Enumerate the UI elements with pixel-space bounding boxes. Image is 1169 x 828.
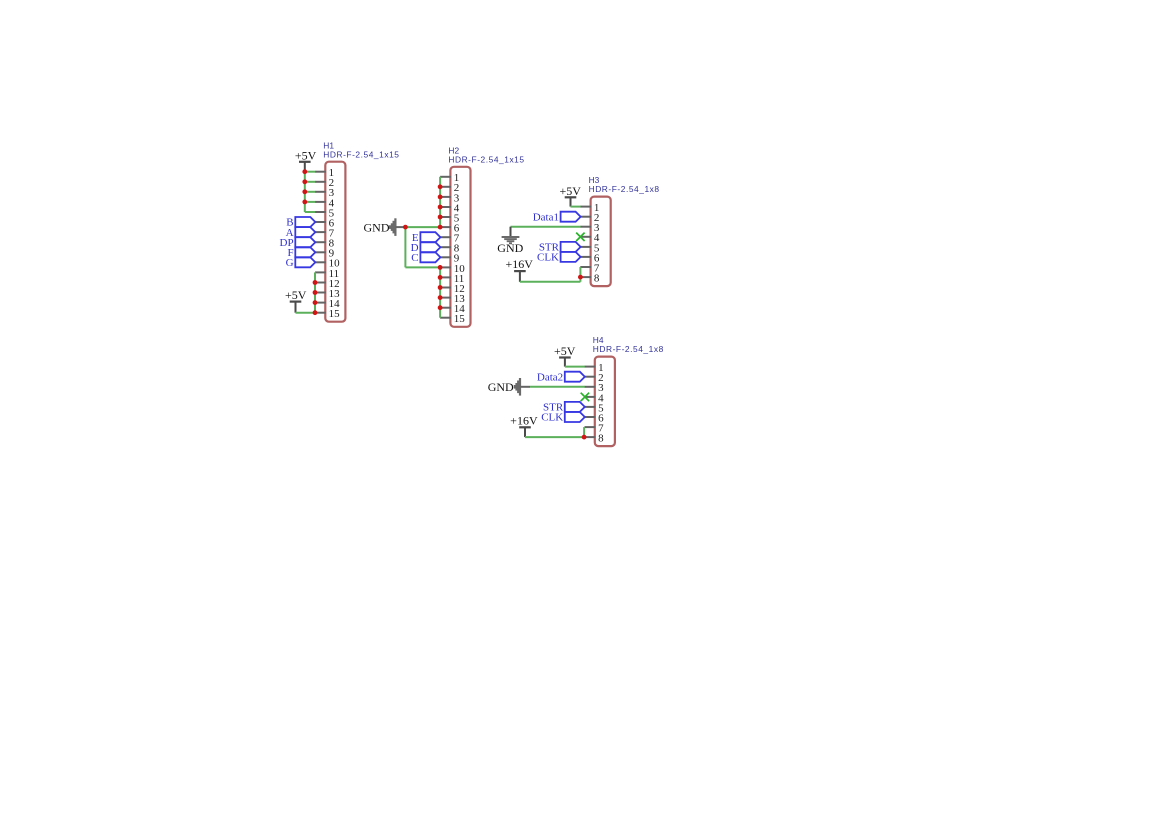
svg-text:C: C — [411, 252, 418, 264]
power symbol +5V — [299, 161, 311, 163]
power symbol +5V — [565, 196, 577, 198]
net label flag B — [295, 217, 315, 227]
H1 pin 15 stub — [315, 312, 326, 314]
net label flag F — [295, 247, 315, 257]
power +16V pin stub — [519, 271, 521, 282]
junction — [438, 184, 443, 189]
power symbol +16V — [514, 270, 526, 272]
H3 pin 7 stub — [580, 266, 591, 268]
net label flag STR — [561, 242, 581, 252]
H1 pin 6 stub — [315, 221, 326, 223]
ground GND pin stub — [395, 226, 405, 228]
power +5V pin stub — [304, 162, 306, 172]
H1 pin 10 stub — [315, 261, 326, 263]
wire +5V vertical bus to H1 pins 1-5 — [304, 172, 306, 212]
H2 pin 10 stub — [440, 266, 451, 268]
power symbol +5V — [290, 301, 302, 303]
wire GND to H2 pin 6 — [405, 226, 440, 228]
ground symbol GND (earth, rotated) — [519, 378, 521, 396]
H3 pin 8 stub — [580, 276, 591, 278]
wire to H1 pin 2 — [305, 181, 316, 183]
net label flag D — [420, 242, 440, 252]
H4 pin 4 stub — [585, 396, 596, 398]
junction — [302, 179, 307, 184]
wire to H1 pin 1 — [305, 171, 316, 173]
junction — [438, 305, 443, 310]
svg-text:CLK: CLK — [537, 252, 559, 264]
H1 pin 13 stub — [315, 292, 326, 294]
H3 pin 3 stub — [580, 226, 591, 228]
junction — [313, 300, 318, 305]
header H2 body — [450, 167, 470, 327]
svg-text:HDR-F-2.54_1x8: HDR-F-2.54_1x8 — [589, 184, 660, 194]
svg-text:15: 15 — [329, 308, 341, 320]
ground symbol GND (earth) — [502, 236, 520, 238]
net label flag CLK — [565, 412, 585, 422]
H4 pin 1 stub — [585, 366, 596, 368]
H4 pin 3 stub — [585, 386, 596, 388]
net label flag E — [420, 232, 440, 242]
H2 pin 7 stub — [440, 236, 451, 238]
H1 pin 14 stub — [315, 302, 326, 304]
svg-text:GND: GND — [497, 241, 523, 255]
junction — [438, 285, 443, 290]
header H1 body — [325, 162, 345, 322]
wire GND vertical bus to H2 pins 10-15 — [439, 267, 441, 317]
svg-text:Data2: Data2 — [537, 371, 563, 383]
junction — [313, 310, 318, 315]
H4 pin 2 stub — [585, 376, 596, 378]
power +5V pin stub — [570, 197, 572, 206]
H1 pin 4 stub — [315, 201, 326, 203]
H2 pin 5 stub — [440, 216, 451, 218]
wire to H1 pin 5 — [305, 211, 316, 213]
wire to H1 pin 13 — [314, 292, 316, 294]
H1 pin 2 stub — [315, 181, 326, 183]
junction — [438, 265, 443, 270]
svg-text:+5V: +5V — [554, 344, 576, 358]
header H4 body — [595, 357, 615, 447]
junction — [578, 275, 583, 280]
wire GND branch down — [404, 227, 406, 267]
wire to H1 pin 14 — [314, 302, 316, 304]
H1 pin 5 stub — [315, 211, 326, 213]
power symbol +16V — [519, 426, 531, 428]
junction — [582, 435, 587, 440]
svg-text:+5V: +5V — [295, 148, 317, 162]
net label flag A — [295, 227, 315, 237]
wire +5V vertical bus to H1 pins 11-15 — [314, 272, 316, 312]
net label flag G — [295, 257, 315, 267]
junction — [313, 290, 318, 295]
wire GND branch to H2 pin 10 — [405, 266, 440, 268]
H3 pin 6 stub — [580, 256, 591, 258]
wire +5V to H4 pin 1 — [565, 366, 585, 368]
H1 pin 8 stub — [315, 241, 326, 243]
H1 pin 1 stub — [315, 171, 326, 173]
svg-text:+16V: +16V — [505, 257, 533, 271]
power +5V pin stub — [564, 358, 566, 367]
svg-text:+16V: +16V — [510, 414, 538, 428]
power symbol +5V — [559, 356, 571, 358]
net label flag Data2 — [565, 372, 585, 382]
junction — [438, 295, 443, 300]
wire +16V vertical to H4 pins 7-8 — [583, 427, 585, 437]
svg-text:+5V: +5V — [285, 288, 307, 302]
power +16V pin stub — [524, 427, 526, 437]
wire +16V horizontal — [520, 281, 581, 283]
H4 pin 6 stub — [585, 416, 596, 418]
junction — [438, 225, 443, 230]
net label flag CLK — [561, 252, 581, 262]
ground GND pin stub — [510, 227, 512, 237]
svg-text:GND: GND — [488, 380, 514, 394]
H1 pin 12 stub — [315, 282, 326, 284]
net label flag C — [420, 252, 440, 262]
svg-text:HDR-F-2.54_1x8: HDR-F-2.54_1x8 — [593, 344, 664, 354]
wire GND to H3 pin 3 — [511, 226, 581, 228]
power +5V pin stub — [295, 302, 297, 313]
no-ERC cross — [581, 393, 589, 401]
H2 pin 13 stub — [440, 297, 451, 299]
svg-text:+5V: +5V — [559, 184, 581, 198]
junction — [403, 225, 408, 230]
H3 pin 5 stub — [580, 246, 591, 248]
svg-text:Data1: Data1 — [533, 211, 559, 223]
wire GND to H4 pin 3 — [530, 386, 585, 388]
H2 pin 12 stub — [440, 287, 451, 289]
H2 pin 2 stub — [440, 186, 451, 188]
junction — [302, 169, 307, 174]
ground GND pin stub — [520, 386, 530, 388]
H3 pin 2 stub — [580, 216, 591, 218]
H2 pin 14 stub — [440, 307, 451, 309]
svg-text:HDR-F-2.54_1x15: HDR-F-2.54_1x15 — [323, 149, 399, 159]
net label flag Data1 — [561, 212, 581, 222]
net label flag STR — [565, 402, 585, 412]
svg-text:8: 8 — [594, 273, 600, 285]
wire +16V vertical to H3 pins 7-8 — [579, 267, 581, 282]
wire to H1 pin 3 — [305, 191, 316, 193]
junction — [438, 205, 443, 210]
header H3 body — [591, 197, 611, 287]
wire +16V horizontal — [525, 436, 584, 438]
H2 pin 9 stub — [440, 256, 451, 258]
junction — [302, 200, 307, 205]
H3 pin 1 stub — [580, 206, 591, 208]
wire to H1 pin 4 — [305, 201, 316, 203]
svg-text:15: 15 — [454, 313, 466, 325]
net label flag DP — [295, 237, 315, 247]
H4 pin 7 stub — [585, 426, 596, 428]
H1 pin 3 stub — [315, 191, 326, 193]
wire +5V to H3 pin 1 — [571, 206, 581, 208]
H1 pin 9 stub — [315, 251, 326, 253]
H2 pin 6 stub — [440, 226, 451, 228]
svg-text:GND: GND — [364, 220, 390, 234]
junction — [438, 215, 443, 220]
wire to H1 pin 12 — [314, 282, 316, 284]
svg-text:HDR-F-2.54_1x15: HDR-F-2.54_1x15 — [448, 154, 524, 164]
H2 pin 1 stub — [440, 176, 451, 178]
H4 pin 8 stub — [585, 436, 596, 438]
junction — [438, 275, 443, 280]
H1 pin 11 stub — [315, 271, 326, 273]
wire GND vertical bus to H2 pins 1-6 — [439, 177, 441, 227]
junction — [313, 280, 318, 285]
ground symbol GND (earth, rotated) — [394, 218, 396, 236]
H2 pin 11 stub — [440, 276, 451, 278]
H2 pin 8 stub — [440, 246, 451, 248]
H3 pin 4 stub — [580, 236, 591, 238]
wire to H1 pin 11 — [314, 271, 316, 273]
svg-text:G: G — [286, 257, 294, 269]
H2 pin 3 stub — [440, 196, 451, 198]
wire to H1 pin 15 — [314, 312, 316, 314]
svg-text:CLK: CLK — [541, 412, 563, 424]
H1 pin 7 stub — [315, 231, 326, 233]
H2 pin 4 stub — [440, 206, 451, 208]
wire +5V to H1 pin 15 — [296, 312, 316, 314]
junction — [302, 189, 307, 194]
junction — [438, 195, 443, 200]
H4 pin 5 stub — [585, 406, 596, 408]
H2 pin 15 stub — [440, 317, 451, 319]
svg-text:8: 8 — [598, 433, 604, 445]
no-ERC cross — [576, 233, 584, 241]
